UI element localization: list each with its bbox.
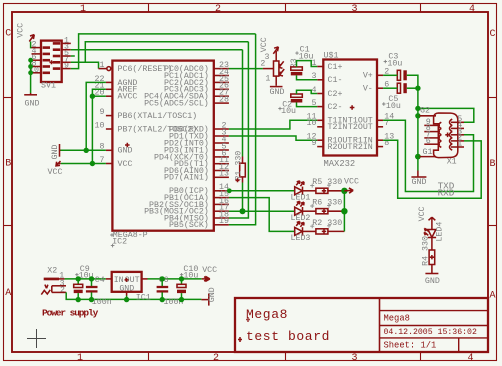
svg-text:4: 4 bbox=[469, 4, 475, 15]
resistor R4 330 bbox=[421, 236, 434, 273]
wire GND rail left of SV1 (pins 6,8,10) bbox=[30, 60, 32, 93]
svg-text:10u: 10u bbox=[281, 107, 296, 116]
svg-text:LED3: LED3 bbox=[291, 234, 311, 243]
svg-text:IC2: IC2 bbox=[112, 237, 127, 246]
capacitor C3 bbox=[384, 53, 407, 81]
svg-text:VCC: VCC bbox=[48, 168, 63, 177]
pin G1 shield bbox=[420, 156, 437, 158]
wire PD1 to MAX232 R1OUT bbox=[229, 136, 317, 140]
ground symbol below X1 bbox=[411, 171, 426, 187]
wire R1IN to DB9 pin2 (RXD) bbox=[383, 140, 481, 198]
svg-text:1: 1 bbox=[80, 4, 86, 15]
wire V- to C5 to gnd rail bbox=[383, 87, 397, 89]
wire SV1 pin5 stub bbox=[71, 55, 75, 57]
svg-text:X2: X2 bbox=[47, 266, 57, 275]
supply VCC left of IC2 bbox=[48, 161, 63, 177]
wire IC2 VCC pin7 to VCC symbol bbox=[61, 163, 106, 165]
capacitor C9 10u bbox=[74, 265, 94, 302]
capacitor C2 bbox=[278, 94, 302, 116]
wire C2 to MAX232 pins 4,5 bbox=[297, 90, 318, 94]
svg-text:GND: GND bbox=[412, 178, 427, 187]
svg-text:GND: GND bbox=[118, 147, 133, 156]
junction dots on SV1 gnd rail bbox=[28, 58, 33, 63]
svg-text:SV1: SV1 bbox=[41, 82, 56, 91]
ground symbol below R3 bbox=[270, 87, 285, 97]
pin G2 shield bbox=[420, 115, 437, 117]
microcontroller IC2 MEGA8-P bbox=[95, 61, 229, 248]
svg-text:B: B bbox=[490, 159, 496, 170]
LED LED2 bbox=[291, 201, 311, 223]
capacitor C6 100n bbox=[157, 276, 184, 307]
svg-text:10u: 10u bbox=[387, 59, 402, 68]
svg-text:3: 3 bbox=[351, 4, 357, 15]
svg-text:R4 330: R4 330 bbox=[421, 236, 430, 266]
wire T1OUT to DB9 pin3 (TXD) bbox=[383, 120, 473, 191]
capacitor C1 bbox=[291, 45, 314, 75]
svg-text:Power supply: Power supply bbox=[42, 307, 99, 318]
wire gnd rail to DB9 pin5 bbox=[418, 108, 474, 122]
wire LED VCC rail bbox=[343, 191, 345, 232]
svg-text:T2IN: T2IN bbox=[328, 123, 348, 132]
svg-text:2: 2 bbox=[213, 353, 219, 364]
svg-text:VCC: VCC bbox=[418, 206, 427, 221]
capacitor C4 100n bbox=[86, 276, 112, 307]
supply VCC output arrow bbox=[202, 266, 217, 282]
svg-text:6: 6 bbox=[426, 137, 431, 146]
wire PC0 to trimmer wiper bbox=[229, 68, 263, 70]
svg-text:C: C bbox=[5, 29, 11, 40]
svg-text:Sheet: 1/1: Sheet: 1/1 bbox=[384, 341, 437, 351]
svg-text:A: A bbox=[5, 288, 11, 299]
svg-text:VCC: VCC bbox=[118, 160, 133, 169]
svg-text:RXD: RXD bbox=[438, 187, 455, 198]
svg-text:3: 3 bbox=[351, 353, 357, 364]
svg-text:B: B bbox=[5, 159, 11, 170]
connector SV1 bbox=[29, 36, 71, 90]
connector X2 power input bbox=[41, 266, 66, 295]
svg-text:LED4: LED4 bbox=[436, 222, 445, 242]
wire AREF/AVCC to VCC rail bbox=[92, 89, 106, 163]
svg-text:9: 9 bbox=[312, 139, 317, 148]
svg-text:V-: V- bbox=[363, 85, 373, 94]
svg-text:GND: GND bbox=[208, 287, 217, 302]
svg-text:PD7(AIN1): PD7(AIN1) bbox=[164, 173, 209, 183]
wire PB4 MISO riser bbox=[229, 42, 249, 218]
svg-text:19: 19 bbox=[219, 217, 229, 226]
svg-text:100n: 100n bbox=[92, 298, 112, 307]
svg-text:GND: GND bbox=[51, 145, 60, 160]
supply VCC at LED4 bbox=[418, 206, 435, 229]
svg-text:2: 2 bbox=[215, 4, 221, 15]
resistor R2 330 bbox=[303, 219, 345, 234]
svg-text:1: 1 bbox=[457, 140, 462, 149]
svg-text:GND: GND bbox=[270, 88, 285, 97]
title block bbox=[235, 298, 488, 352]
svg-text:10u: 10u bbox=[183, 272, 198, 281]
svg-text:LED2: LED2 bbox=[291, 214, 311, 223]
svg-text:LED1: LED1 bbox=[291, 193, 311, 202]
svg-text:1: 1 bbox=[100, 61, 105, 70]
wire +9V rail bbox=[65, 278, 106, 280]
svg-text:04.12.2005 15:36:02: 04.12.2005 15:36:02 bbox=[384, 328, 477, 337]
svg-text:1: 1 bbox=[77, 353, 83, 364]
svg-text:10u: 10u bbox=[386, 102, 401, 111]
wire PD0 to MAX232 T1IN bbox=[229, 120, 317, 129]
svg-text:10: 10 bbox=[95, 121, 105, 130]
svg-text:VCC: VCC bbox=[17, 23, 26, 38]
svg-text:2: 2 bbox=[60, 286, 65, 295]
junction AGND/GND bbox=[84, 148, 89, 153]
svg-text:A: A bbox=[490, 291, 496, 302]
LED LED1 bbox=[291, 181, 311, 203]
wire PB0 to LED1 bbox=[229, 190, 294, 192]
svg-text:C2-: C2- bbox=[328, 103, 343, 112]
svg-text:10: 10 bbox=[307, 119, 317, 128]
svg-text:MAX232: MAX232 bbox=[324, 159, 356, 169]
wire PB5 SCK riser bbox=[229, 34, 256, 225]
capacitor C10 10u bbox=[177, 265, 198, 302]
svg-text:C1+: C1+ bbox=[328, 63, 343, 72]
svg-text:R2OUT: R2OUT bbox=[328, 143, 353, 152]
wire V+ to C3 to gnd rail bbox=[383, 74, 397, 76]
svg-text:C2+: C2+ bbox=[328, 90, 343, 99]
svg-text:X1: X1 bbox=[447, 157, 457, 166]
resistor R5 330 bbox=[303, 178, 345, 193]
svg-text:28: 28 bbox=[219, 96, 229, 105]
svg-text:T2OUT: T2OUT bbox=[348, 123, 373, 132]
capacitor C5 bbox=[382, 83, 407, 111]
trimmer R3 bbox=[260, 37, 299, 86]
LED LED4 bbox=[424, 222, 445, 242]
svg-text:AVCC: AVCC bbox=[118, 93, 138, 102]
svg-text:2: 2 bbox=[260, 59, 265, 68]
rs232 driver U$1 MAX232 bbox=[307, 51, 395, 169]
svg-text:PC5(ADC5/SCL): PC5(ADC5/SCL) bbox=[144, 99, 209, 109]
wire C1 to MAX232 pins 1,3 bbox=[297, 61, 318, 67]
svg-text:VCC: VCC bbox=[260, 37, 269, 52]
ground symbol below R4 bbox=[425, 274, 440, 286]
wire SV1 pin3 to third bus bbox=[71, 49, 243, 51]
svg-text:9: 9 bbox=[100, 108, 105, 117]
wire GND rail of supply bbox=[66, 292, 201, 299]
svg-text:G1: G1 bbox=[423, 148, 433, 157]
ground symbol left of IC2 bbox=[51, 144, 61, 160]
svg-text:U$1: U$1 bbox=[324, 51, 339, 61]
svg-text:1: 1 bbox=[265, 75, 270, 84]
wire SV1 pin9 to top bus bbox=[71, 34, 256, 69]
svg-text:Mega8: Mega8 bbox=[246, 307, 288, 322]
svg-text:C4: C4 bbox=[95, 276, 105, 285]
svg-text:13: 13 bbox=[219, 170, 229, 179]
ground symbol right of supply rail bbox=[201, 287, 216, 305]
svg-text:VCC: VCC bbox=[202, 266, 217, 275]
wire VCC to SV1 pin 2 bbox=[30, 42, 33, 48]
LED LED3 bbox=[291, 221, 311, 243]
resistor R6 330 bbox=[303, 199, 345, 214]
svg-text:GND: GND bbox=[425, 277, 440, 286]
svg-text:GND: GND bbox=[25, 100, 40, 109]
svg-text:Mega8: Mega8 bbox=[384, 314, 410, 324]
ground symbol below SV1 bbox=[24, 93, 39, 109]
svg-text:G2: G2 bbox=[420, 106, 430, 115]
wire SV1 pin7 riser to second bus bbox=[85, 42, 248, 63]
supply VCC at SV1 bbox=[17, 23, 35, 42]
svg-text:R2IN: R2IN bbox=[353, 143, 373, 152]
svg-text:R1 330: R1 330 bbox=[234, 151, 243, 181]
svg-text:test board: test board bbox=[246, 329, 330, 344]
wire IC2 GND pin8 to ground symbol bbox=[61, 149, 106, 151]
svg-text:PB6(XTAL1/TOSC1): PB6(XTAL1/TOSC1) bbox=[118, 111, 198, 121]
supply VCC at LED rail bbox=[344, 177, 359, 193]
resistor R1 330 in MOSI line bbox=[234, 50, 245, 212]
wire AGND to GND rail left of IC2 bbox=[86, 82, 106, 150]
voltage regulator IC1 bbox=[106, 272, 151, 303]
wire PB3 to LED2 with R1 junction bbox=[229, 210, 294, 212]
svg-text:VCC: VCC bbox=[344, 177, 359, 186]
svg-text:IC1: IC1 bbox=[136, 293, 151, 302]
svg-text:4: 4 bbox=[467, 353, 473, 364]
connector X1 DB9 bbox=[434, 113, 458, 166]
svg-text:C: C bbox=[490, 29, 496, 40]
svg-text:C1-: C1- bbox=[328, 76, 343, 85]
wire SV1 pin7 to IC2 PC6 bbox=[71, 62, 99, 68]
svg-text:R2 330: R2 330 bbox=[312, 219, 342, 228]
wire PB1 to LED3 bbox=[229, 198, 294, 232]
svg-text:R6 330: R6 330 bbox=[312, 199, 342, 208]
svg-text:PB5(SCK): PB5(SCK) bbox=[169, 220, 209, 230]
svg-text:R5 330: R5 330 bbox=[312, 178, 342, 187]
svg-text:V+: V+ bbox=[363, 72, 373, 81]
